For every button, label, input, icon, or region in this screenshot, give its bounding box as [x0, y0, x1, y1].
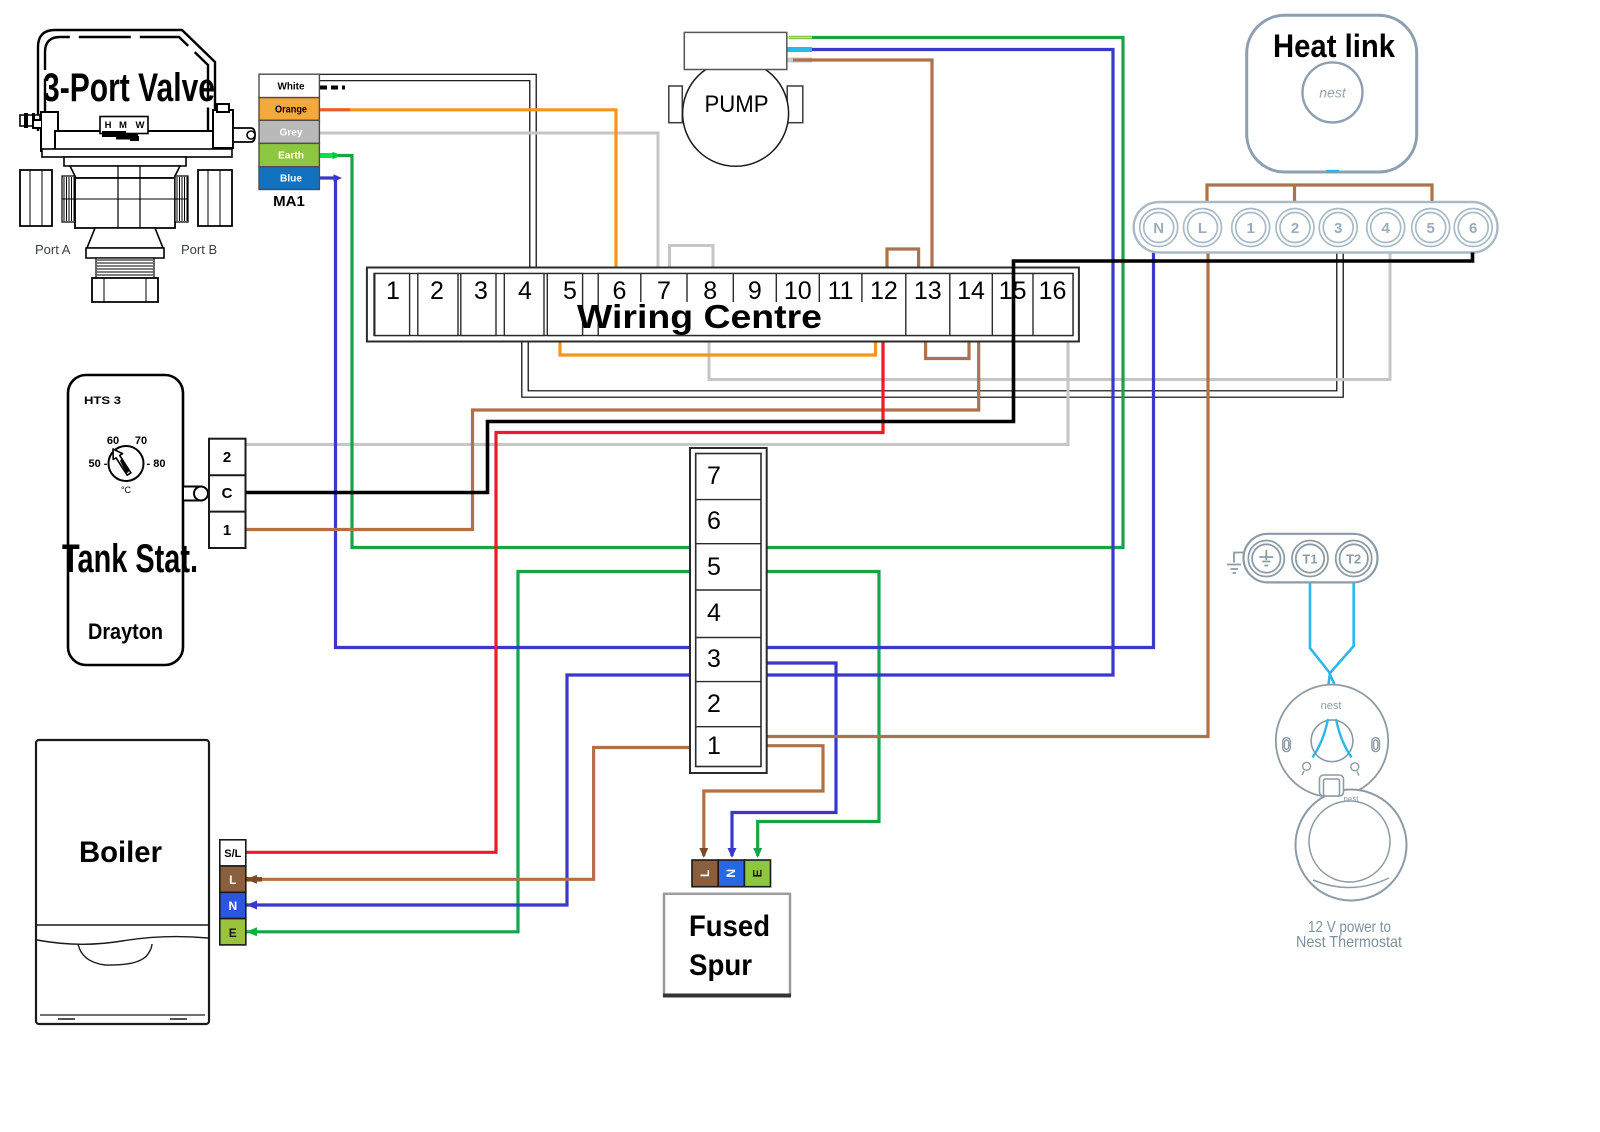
- svg-text:nest: nest: [1321, 700, 1342, 712]
- svg-text:16: 16: [1039, 277, 1067, 305]
- svg-text:White: White: [278, 81, 305, 93]
- svg-text:11: 11: [828, 277, 854, 305]
- svg-text:1: 1: [386, 277, 400, 305]
- svg-text:S/L: S/L: [224, 848, 241, 860]
- svg-text:Fused: Fused: [689, 910, 770, 943]
- svg-text:2: 2: [1291, 220, 1299, 237]
- svg-text:13: 13: [914, 277, 942, 305]
- svg-text:Heat link: Heat link: [1273, 28, 1395, 64]
- svg-text:5: 5: [707, 553, 721, 581]
- svg-text:Blue: Blue: [280, 173, 302, 185]
- svg-text:Port B: Port B: [181, 242, 217, 257]
- svg-text:1: 1: [223, 522, 231, 539]
- svg-text:4: 4: [518, 277, 532, 305]
- svg-text:H: H: [105, 120, 112, 131]
- svg-text:Orange: Orange: [275, 104, 307, 116]
- svg-text:Wiring Centre: Wiring Centre: [577, 298, 822, 335]
- svg-text:Nest Thermostat: Nest Thermostat: [1296, 934, 1402, 951]
- svg-text:Tank Stat.: Tank Stat.: [62, 537, 198, 581]
- svg-text:nest: nest: [1343, 795, 1359, 804]
- svg-text:70: 70: [135, 435, 147, 447]
- svg-text:5: 5: [563, 277, 577, 305]
- svg-text:Boiler: Boiler: [79, 836, 162, 869]
- svg-text:C: C: [222, 485, 233, 502]
- svg-text:N: N: [724, 869, 738, 878]
- svg-text:N: N: [1153, 220, 1164, 237]
- svg-text:4: 4: [707, 599, 721, 627]
- svg-text:HTS 3: HTS 3: [84, 395, 121, 407]
- svg-text:5: 5: [1427, 220, 1435, 237]
- svg-text:3-Port Valve: 3-Port Valve: [43, 66, 215, 110]
- svg-text:3: 3: [707, 645, 721, 673]
- svg-text:6: 6: [1469, 220, 1477, 237]
- svg-text:1: 1: [707, 732, 721, 760]
- svg-text:50 -: 50 -: [89, 458, 108, 470]
- svg-text:2: 2: [707, 690, 721, 718]
- svg-text:E: E: [751, 869, 765, 877]
- svg-text:T2: T2: [1346, 552, 1361, 567]
- svg-text:3: 3: [474, 277, 488, 305]
- svg-text:Port A: Port A: [35, 242, 71, 257]
- svg-text:14: 14: [957, 277, 985, 305]
- svg-text:- 80: - 80: [147, 458, 166, 470]
- svg-text:2: 2: [430, 277, 444, 305]
- svg-text:2: 2: [223, 449, 231, 466]
- svg-text:L: L: [698, 870, 712, 877]
- svg-text:Spur: Spur: [689, 949, 752, 982]
- svg-text:4: 4: [1382, 220, 1391, 237]
- svg-text:3: 3: [1334, 220, 1342, 237]
- svg-text:Grey: Grey: [280, 127, 303, 139]
- svg-text:6: 6: [707, 507, 721, 535]
- svg-text:W: W: [136, 120, 145, 131]
- svg-text:Earth: Earth: [278, 150, 304, 162]
- svg-text:M: M: [119, 120, 127, 131]
- svg-text:L: L: [229, 873, 236, 887]
- svg-text:N: N: [228, 899, 237, 913]
- svg-text:°C: °C: [121, 485, 132, 495]
- svg-text:Drayton: Drayton: [88, 619, 163, 644]
- svg-text:60: 60: [107, 435, 119, 447]
- svg-text:L: L: [1198, 220, 1207, 237]
- svg-text:7: 7: [707, 462, 721, 490]
- svg-text:1: 1: [1247, 220, 1255, 237]
- svg-text:nest: nest: [1319, 85, 1347, 101]
- svg-text:PUMP: PUMP: [705, 91, 769, 118]
- svg-text:E: E: [229, 926, 237, 940]
- svg-text:MA1: MA1: [273, 193, 305, 210]
- svg-text:12: 12: [870, 277, 898, 305]
- svg-text:T1: T1: [1302, 552, 1317, 567]
